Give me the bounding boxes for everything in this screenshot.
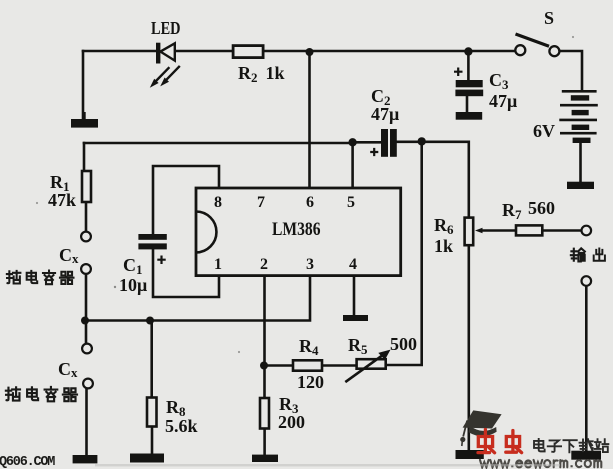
wire pin5 vertical from C2 line <box>351 143 354 188</box>
wire C1 bottom to pin1 <box>153 250 219 298</box>
svg-text:1: 1 <box>214 256 222 273</box>
output terminal lower <box>582 276 592 286</box>
svg-text:R6: R6 <box>434 215 454 237</box>
LED D1 <box>150 43 180 88</box>
svg-text:R5: R5 <box>348 335 368 357</box>
svg-text:Cx: Cx <box>59 245 79 266</box>
svg-text:S: S <box>544 8 554 28</box>
wire LED left leg down to ground <box>82 51 85 119</box>
junction node C2 left <box>348 138 356 146</box>
svg-text:LED: LED <box>151 18 181 38</box>
switch S <box>515 34 559 56</box>
svg-text:2: 2 <box>260 256 268 273</box>
wire R7 to R6 wiper <box>481 229 517 232</box>
scan speck 4 <box>572 36 574 38</box>
wire node line y=143 left rail to C2 <box>84 142 352 145</box>
labels group <box>48 8 555 436</box>
svg-text:120: 120 <box>297 372 324 392</box>
wire LED to R2 <box>176 50 233 53</box>
wire C2 line right to R6 drop <box>422 142 469 218</box>
svg-text:1k: 1k <box>434 236 453 256</box>
wire below Cx2 to ground <box>85 389 88 455</box>
svg-text:Q606.COM: Q606.COM <box>0 455 55 469</box>
svg-text:4: 4 <box>349 256 357 273</box>
svg-text:560: 560 <box>528 198 555 218</box>
wire switch to battery top <box>560 51 582 89</box>
wire R7 to output terminal <box>542 229 581 232</box>
wire pin3 down and left to node line <box>85 276 310 321</box>
capacitor C1 <box>138 234 166 249</box>
wire between Cx terminals <box>85 275 88 343</box>
svg-text:6: 6 <box>306 194 314 211</box>
wire pin4 to ground <box>353 276 356 315</box>
wire C2 right lead <box>397 141 422 144</box>
IC notch <box>196 212 216 253</box>
label 插电容器 lower (hand-drawn CJK) <box>6 387 77 401</box>
resistor R1 <box>82 171 91 202</box>
ground below Cx rail <box>73 455 98 463</box>
wire pin2 down to R3 <box>263 276 266 398</box>
scan speck 1 <box>114 286 116 288</box>
svg-text:200: 200 <box>278 412 305 432</box>
watermark www.eeworm.com <box>480 460 601 467</box>
terminal Cx2 bottom circle <box>83 379 93 389</box>
ground below C3 <box>456 112 483 120</box>
junction node left rail tap <box>81 317 89 325</box>
scan speck 2 <box>36 202 38 204</box>
scan speck 3 <box>238 351 240 353</box>
svg-text:47k: 47k <box>48 190 76 210</box>
plus sign of C2 <box>370 148 378 156</box>
wire R3 to ground <box>263 429 266 455</box>
wiper arrow at R6 <box>475 228 483 234</box>
label Cx upper <box>58 245 79 380</box>
svg-text:R7: R7 <box>502 200 522 222</box>
battery B1 6V <box>559 91 598 143</box>
svg-text:500: 500 <box>390 334 417 354</box>
wire output lower terminal to ground <box>585 286 588 450</box>
wire R6 bottom to ground <box>467 245 470 450</box>
svg-text:R4: R4 <box>299 336 319 358</box>
ground below R6 <box>456 450 484 459</box>
capacitor C3 <box>455 80 483 96</box>
svg-text:47μ: 47μ <box>371 104 399 124</box>
potentiometer R5 <box>345 350 390 383</box>
svg-text:R21k: R21k <box>238 63 285 85</box>
svg-text:6V: 6V <box>533 121 555 141</box>
svg-text:Cx: Cx <box>58 359 78 380</box>
terminal Cx2 top circle <box>82 344 92 354</box>
ground below output <box>571 451 601 460</box>
ground below battery <box>567 182 594 189</box>
resistor R8 <box>147 398 157 427</box>
resistor R6 (pot with wiper) <box>465 218 474 246</box>
svg-text:8: 8 <box>214 194 222 211</box>
watermark 虫虫 red characters <box>478 430 522 453</box>
wire R2 to switch <box>263 50 515 53</box>
watermark 电子下载站 (hand-drawn CJK) <box>534 439 608 452</box>
ground below pin4 <box>343 315 368 321</box>
ground below R8 <box>130 454 164 463</box>
svg-text:C3: C3 <box>489 70 509 92</box>
wire R8 stem top <box>150 321 153 398</box>
wire pin6 vertical from top rail <box>308 52 311 188</box>
resistor R4 <box>293 360 322 370</box>
svg-text:10μ: 10μ <box>119 275 147 295</box>
label 输出 (hand-drawn CJK) <box>571 248 605 261</box>
svg-text:7: 7 <box>257 194 265 211</box>
terminal Cx1 top circle <box>81 232 91 242</box>
op-amp IC U1 LM386 body <box>196 188 401 276</box>
capacitor C2 <box>381 129 397 157</box>
wire battery bottom to ground <box>579 144 582 182</box>
svg-text:47μ: 47μ <box>489 91 517 111</box>
resistor R3 <box>260 398 269 429</box>
junction node pin2 R4 <box>260 362 268 370</box>
output terminal upper <box>582 226 592 236</box>
watermark graduation cap logo <box>460 410 501 446</box>
ground below LED left <box>71 112 98 128</box>
svg-text:C1: C1 <box>123 255 143 277</box>
wire C2 left lead <box>352 141 381 144</box>
scan smudge bottom <box>95 464 560 466</box>
wire C3 to ground <box>466 96 469 112</box>
plus sign of C1 <box>157 256 165 265</box>
svg-text:5: 5 <box>347 194 355 211</box>
wire C3 stem <box>467 52 470 81</box>
wire pin8 to C1 loop top <box>153 166 219 234</box>
junction node top rail pin6 <box>306 48 314 56</box>
svg-text:3: 3 <box>306 256 314 273</box>
junction node R8 top <box>146 317 154 325</box>
resistor R7 <box>516 225 542 235</box>
svg-text:LM386: LM386 <box>272 219 321 240</box>
wire left rail R1 section <box>84 143 86 231</box>
plus sign of C3 <box>454 68 463 77</box>
wire R8 to ground <box>151 427 154 454</box>
wire R5 right end up to C2 line <box>386 142 422 365</box>
junction node top rail C3 <box>464 47 472 55</box>
ground below R3 <box>252 455 278 462</box>
svg-text:5.6k: 5.6k <box>165 416 198 436</box>
wire R4 line from pin2 node <box>265 364 357 367</box>
wire top rail left segment <box>83 50 155 53</box>
terminal Cx1 bottom circle <box>81 264 91 274</box>
resistor R2 <box>233 46 263 58</box>
label 插电容器 upper (hand-drawn CJK) <box>7 271 74 285</box>
junction node C2 right <box>418 137 426 145</box>
